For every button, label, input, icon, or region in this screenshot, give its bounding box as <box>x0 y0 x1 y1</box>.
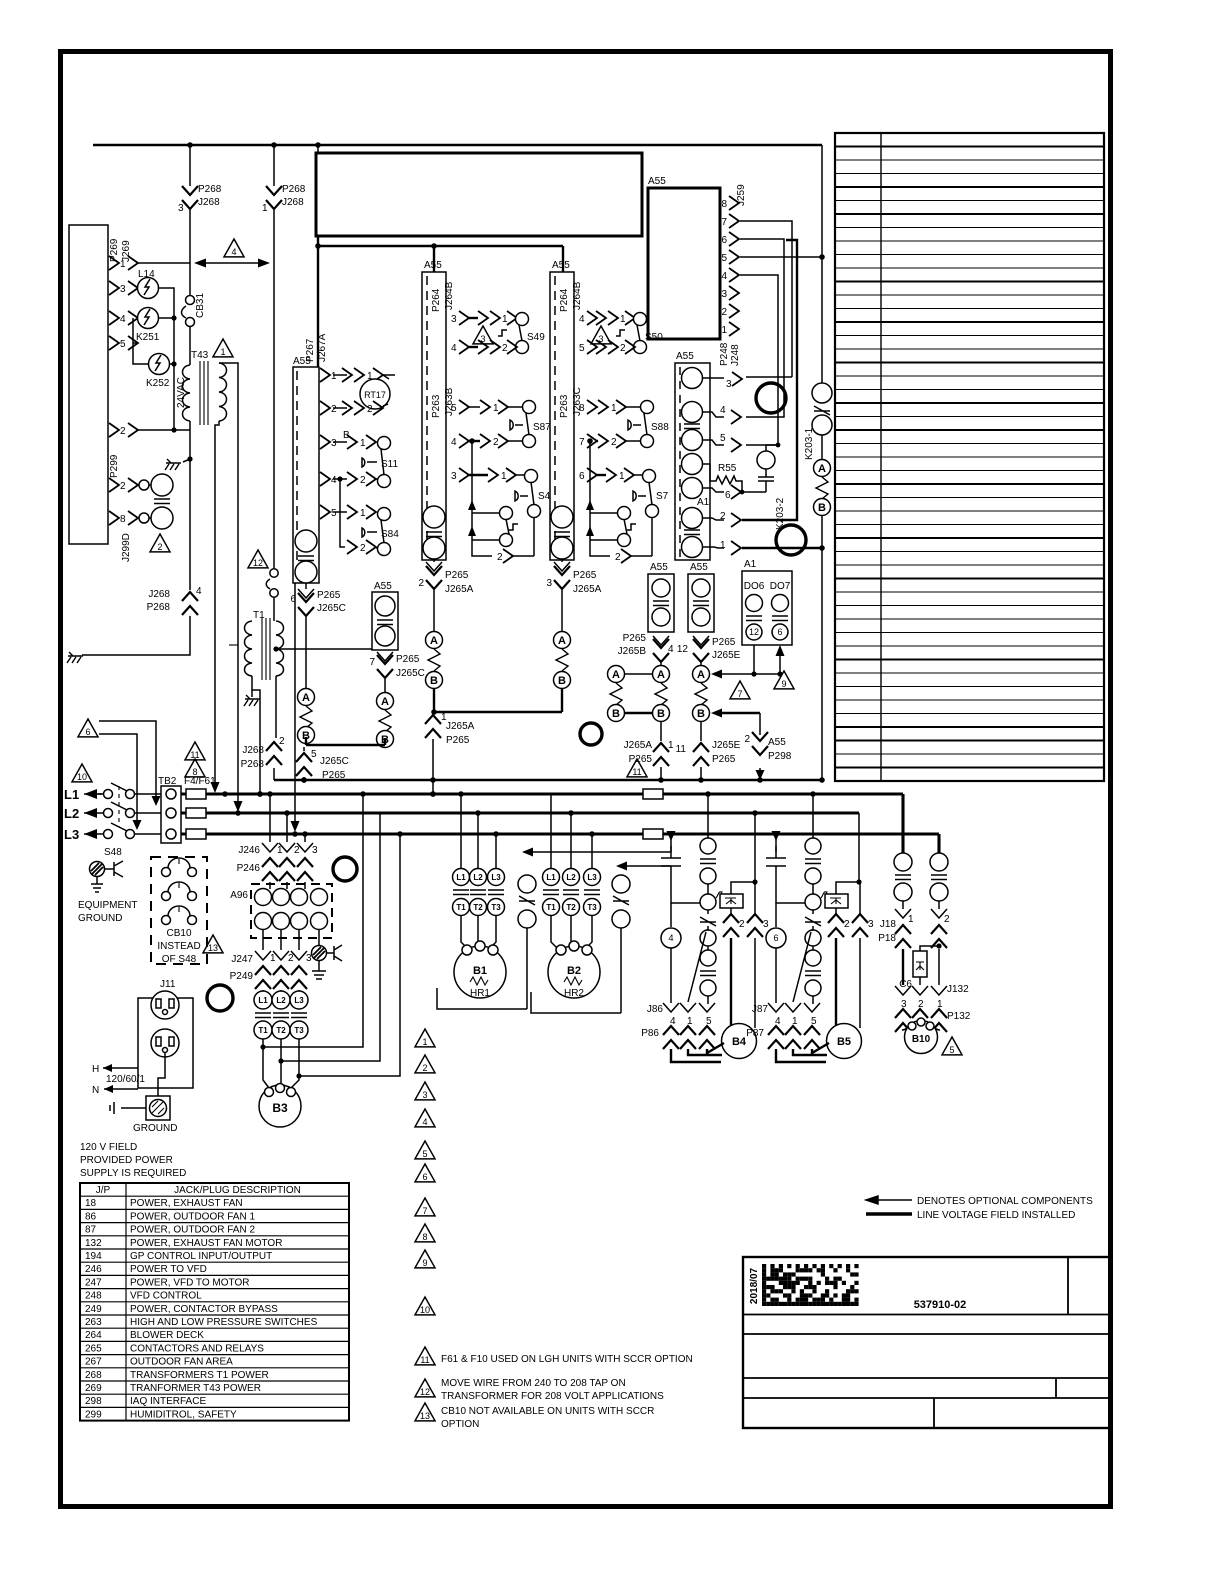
svg-text:12: 12 <box>253 558 263 568</box>
svg-text:2: 2 <box>288 953 294 964</box>
damper latch contacts <box>586 441 636 556</box>
svg-text:P268: P268 <box>198 184 222 195</box>
contactor contact chain (B5) <box>805 838 831 1004</box>
board A55 connector P267/J267A <box>293 356 319 583</box>
wire link to switch boards <box>318 246 563 272</box>
svg-text:9: 9 <box>781 679 786 689</box>
electric heat B1/HR1 <box>454 941 506 999</box>
note flag 2 <box>415 1055 435 1073</box>
svg-text:J18: J18 <box>880 919 897 930</box>
svg-text:TRANSFORMER FOR 208 VOLT APPLI: TRANSFORMER FOR 208 VOLT APPLICATIONS <box>441 1391 664 1402</box>
fuse F10 <box>643 829 663 839</box>
switch S84 <box>362 508 399 556</box>
svg-text:1: 1 <box>720 540 726 551</box>
svg-text:18: 18 <box>85 1198 97 1209</box>
svg-text:L1: L1 <box>64 787 79 802</box>
capacitor between <box>154 499 170 504</box>
indicator L14 <box>137 269 159 299</box>
transformer T43 <box>183 350 227 425</box>
svg-text:CB31: CB31 <box>195 293 206 318</box>
node A (J265C) <box>298 689 315 706</box>
blower motor B3 <box>259 1084 301 1128</box>
wire L14/K251/K252 right side to pin2 node <box>138 288 190 430</box>
drops from buses to J246 <box>270 794 305 842</box>
svg-text:POWER TO VFD: POWER TO VFD <box>130 1264 207 1275</box>
tap to pin1 <box>811 929 813 931</box>
svg-text:S50: S50 <box>645 332 663 343</box>
svg-text:RT17: RT17 <box>364 390 386 400</box>
svg-text:5: 5 <box>422 1149 427 1159</box>
svg-text:13: 13 <box>420 1411 430 1421</box>
svg-text:J268: J268 <box>242 745 264 756</box>
svg-text:P265: P265 <box>712 754 736 765</box>
svg-text:J265A: J265A <box>446 721 475 732</box>
wire: 24V common bus <box>274 779 822 781</box>
svg-text:A55: A55 <box>374 581 392 592</box>
switch S49 <box>498 313 545 354</box>
svg-text:B2: B2 <box>567 965 581 977</box>
svg-text:4: 4 <box>720 405 726 416</box>
svg-text:A55: A55 <box>768 737 786 748</box>
S48 linkage <box>104 786 122 858</box>
svg-text:2: 2 <box>360 475 366 486</box>
svg-text:R55: R55 <box>718 463 737 474</box>
wire to equipment ground <box>67 616 190 663</box>
svg-text:T2: T2 <box>473 903 483 912</box>
wire: top 24V bus <box>93 144 822 146</box>
connector J268/P268 pin2 <box>241 736 285 770</box>
wire to A <box>821 435 823 460</box>
svg-text:5: 5 <box>949 1045 954 1055</box>
connector J268/P268 pin4 <box>147 586 202 615</box>
twisted pair <box>379 710 391 732</box>
svg-text:J265A: J265A <box>573 584 602 595</box>
svg-text:4: 4 <box>231 247 236 257</box>
svg-text:P268: P268 <box>241 759 265 770</box>
A55 J267A pin1 / sensor RT17 <box>320 368 395 382</box>
svg-text:INSTEAD: INSTEAD <box>157 941 200 952</box>
wire B to low bus <box>821 515 823 780</box>
svg-text:4: 4 <box>451 343 457 354</box>
svg-text:J265A: J265A <box>624 740 653 751</box>
svg-text:P269: P269 <box>109 238 120 262</box>
svg-text:5: 5 <box>720 433 726 444</box>
connector J132 <box>895 984 969 1010</box>
note flag 10 <box>415 1297 435 1315</box>
svg-text:6: 6 <box>85 727 90 737</box>
svg-text:T2: T2 <box>276 1026 286 1035</box>
fused tap circle 6 <box>766 903 786 1003</box>
node B (K203) <box>814 499 831 516</box>
switch S11 <box>362 437 398 488</box>
wires into motor <box>671 1043 724 1062</box>
relay coil box <box>825 813 862 908</box>
node A (J265E) with feed from A1 <box>693 645 757 683</box>
svg-text:6: 6 <box>725 490 731 501</box>
2D barcode <box>762 1264 859 1306</box>
svg-text:P263: P263 <box>559 394 570 418</box>
svg-text:3: 3 <box>726 379 732 390</box>
jack/plug description table <box>80 1183 349 1421</box>
svg-text:3: 3 <box>901 999 907 1010</box>
svg-text:J264B: J264B <box>572 281 583 310</box>
P269 pin 5 <box>109 336 138 350</box>
J259 pin 8 <box>721 196 739 210</box>
wire T43 secondary low <box>189 421 191 590</box>
svg-text:TRANSFORMERS T1 POWER: TRANSFORMERS T1 POWER <box>130 1370 269 1381</box>
svg-text:269: 269 <box>85 1383 102 1394</box>
disconnect S48 pole L3 <box>104 823 162 839</box>
svg-text:11: 11 <box>676 744 687 755</box>
J259 pin 1 <box>721 322 739 336</box>
contactor poles A55 <box>682 368 710 558</box>
bypass contactor poles (VFD output) <box>254 990 308 1039</box>
svg-text:J246: J246 <box>238 845 260 856</box>
svg-text:J265C: J265C <box>320 756 349 767</box>
svg-text:6: 6 <box>773 933 778 943</box>
contactor board A55 with P248/J248 <box>675 351 710 560</box>
svg-text:1: 1 <box>619 471 625 482</box>
svg-text:1: 1 <box>220 347 225 357</box>
svg-text:P265: P265 <box>573 570 597 581</box>
wire joining B nodes <box>306 737 385 745</box>
svg-text:A55: A55 <box>424 260 442 271</box>
svg-text:P86: P86 <box>641 1028 659 1039</box>
connector P269/J269 box <box>69 225 108 544</box>
latch output pin 2 <box>497 518 534 563</box>
P248 pin2 <box>702 240 797 527</box>
wire ring marker 2 <box>333 857 357 881</box>
svg-text:268: 268 <box>85 1370 102 1381</box>
svg-text:2: 2 <box>844 919 850 930</box>
heater contactor K1 poles <box>453 794 505 916</box>
wire x190 down <box>189 210 191 296</box>
svg-text:S87: S87 <box>533 422 551 433</box>
svg-text:IAQ INTERFACE: IAQ INTERFACE <box>130 1396 206 1407</box>
note flag 4 and option range arrows <box>224 239 244 257</box>
motor B4 <box>722 1024 757 1059</box>
P269 pin 3 <box>109 281 138 295</box>
legend: line voltage field installed <box>866 1210 1075 1221</box>
bus L2 wire <box>181 811 859 814</box>
drop to low voltage bus with J265C pin5 <box>296 747 349 783</box>
limit switch upper <box>151 474 173 496</box>
motor B5 <box>827 1024 862 1059</box>
svg-text:J265A: J265A <box>445 584 474 595</box>
wire ring marker lower <box>776 525 806 555</box>
svg-text:2: 2 <box>360 543 366 554</box>
run capacitor branch <box>661 831 700 903</box>
wires into motor <box>776 1043 829 1062</box>
svg-text:4: 4 <box>196 586 202 597</box>
svg-text:CONTACTORS AND RELAYS: CONTACTORS AND RELAYS <box>130 1343 264 1354</box>
twisted pair <box>428 649 440 671</box>
svg-text:P246: P246 <box>237 863 261 874</box>
fuse F4 <box>186 789 206 799</box>
terminal block TB2 <box>158 776 181 843</box>
svg-text:3: 3 <box>451 471 457 482</box>
node B (J265E) with feed from P298 <box>693 705 761 722</box>
svg-text:A55: A55 <box>552 260 570 271</box>
svg-text:3: 3 <box>312 845 318 856</box>
svg-text:1: 1 <box>422 1037 427 1047</box>
svg-text:2: 2 <box>721 307 727 318</box>
svg-text:L14: L14 <box>138 269 155 280</box>
svg-text:1: 1 <box>270 953 276 964</box>
svg-text:3: 3 <box>546 578 552 589</box>
svg-text:S48: S48 <box>104 847 122 858</box>
J259 pin 7 <box>721 214 739 228</box>
wire x274 down to T1 <box>273 210 275 568</box>
twisted pair <box>695 683 707 705</box>
svg-text:P298: P298 <box>768 751 792 762</box>
power bus L2 <box>64 806 103 821</box>
svg-text:10: 10 <box>420 1305 430 1315</box>
wire to node A <box>561 590 563 631</box>
wire ring marker <box>207 985 233 1011</box>
svg-text:J248: J248 <box>730 344 741 366</box>
svg-text:194: 194 <box>85 1251 102 1262</box>
T43 primary wires to buses <box>211 363 243 812</box>
note flag 4 <box>415 1109 435 1127</box>
thermistor RT17 <box>333 375 390 409</box>
component table (empty grid) <box>835 133 1104 781</box>
120V field note <box>80 1142 186 1179</box>
damper latch contacts <box>468 441 518 556</box>
svg-text:P265: P265 <box>623 633 647 644</box>
svg-text:P268: P268 <box>147 602 171 613</box>
svg-text:3: 3 <box>178 203 184 214</box>
fuse F6 <box>186 829 206 839</box>
bus L3 wire <box>181 832 939 835</box>
A96 ground <box>312 930 343 979</box>
svg-text:SUPPLY IS REQUIRED: SUPPLY IS REQUIRED <box>80 1168 186 1179</box>
svg-text:7: 7 <box>721 217 727 228</box>
svg-text:1: 1 <box>668 740 674 751</box>
svg-text:POWER, VFD TO MOTOR: POWER, VFD TO MOTOR <box>130 1277 249 1288</box>
twisted pair <box>300 706 312 728</box>
node B <box>554 672 571 689</box>
svg-text:N: N <box>92 1085 99 1096</box>
svg-text:2: 2 <box>502 343 508 354</box>
svg-text:5: 5 <box>579 343 585 354</box>
board A55 aux contact box <box>372 581 398 650</box>
bus L1 wire <box>181 792 903 795</box>
svg-text:2: 2 <box>611 437 617 448</box>
svg-text:JACK/PLUG DESCRIPTION: JACK/PLUG DESCRIPTION <box>174 1185 301 1196</box>
svg-text:3: 3 <box>721 289 727 300</box>
exhaust fan contact column 2 <box>930 834 948 909</box>
svg-text:K251: K251 <box>136 332 160 343</box>
svg-text:264: 264 <box>85 1330 102 1341</box>
svg-text:P264: P264 <box>559 288 570 312</box>
svg-text:5: 5 <box>331 508 337 519</box>
connector P86 <box>641 1026 715 1049</box>
svg-text:247: 247 <box>85 1277 102 1288</box>
heater return wires <box>437 988 621 1013</box>
exhaust fan contact column 1 <box>894 794 912 909</box>
svg-text:OPTION: OPTION <box>441 1419 479 1430</box>
svg-text:10: 10 <box>77 772 87 782</box>
power bus L1 <box>64 787 103 802</box>
connector P265/J265C pin7 <box>369 652 424 679</box>
svg-text:S11: S11 <box>381 459 398 470</box>
relay K203-2 <box>757 445 778 492</box>
note flag 3 <box>415 1082 435 1100</box>
svg-text:L2: L2 <box>276 996 286 1005</box>
node B <box>426 672 443 689</box>
svg-text:B3: B3 <box>272 1101 288 1115</box>
svg-text:4: 4 <box>721 271 727 282</box>
note flag 8 <box>415 1224 435 1242</box>
heater contactor K2 poles <box>543 794 601 916</box>
connector P265/J265C pin6 <box>290 583 345 616</box>
resistor R55 <box>702 463 742 492</box>
svg-text:4: 4 <box>668 933 673 943</box>
svg-text:P268: P268 <box>282 184 306 195</box>
board A55 switch inputs (J264B/J263B) <box>422 260 446 560</box>
switch S7 <box>633 470 669 518</box>
connector P249 <box>230 966 307 989</box>
J263B pin 5 <box>451 400 522 414</box>
svg-text:2: 2 <box>497 552 503 563</box>
svg-text:P267: P267 <box>305 338 316 362</box>
svg-text:24VAC: 24VAC <box>176 377 187 408</box>
connector P246 <box>237 858 313 881</box>
svg-text:B1: B1 <box>473 965 487 977</box>
svg-text:4: 4 <box>668 644 674 655</box>
svg-text:3: 3 <box>868 919 874 930</box>
svg-text:P299: P299 <box>109 454 120 478</box>
disconnect S48 pole L2 <box>104 802 162 818</box>
connector J265E pin11 to bus <box>676 721 741 780</box>
relay K251 <box>136 308 160 344</box>
twisted pairs <box>610 683 622 705</box>
relay coil box <box>720 813 758 908</box>
svg-text:GP CONTROL INPUT/OUTPUT: GP CONTROL INPUT/OUTPUT <box>130 1251 272 1262</box>
wire board to L3 <box>291 583 300 832</box>
P248 pin1 <box>702 540 825 555</box>
equipment ground <box>78 861 137 924</box>
P269 pin 4 <box>109 311 138 325</box>
svg-text:1: 1 <box>501 471 507 482</box>
board lower contact with capacitor <box>423 506 445 559</box>
svg-text:A1: A1 <box>744 559 757 570</box>
svg-text:7: 7 <box>737 689 742 699</box>
svg-text:L3: L3 <box>491 873 501 882</box>
svg-text:P87: P87 <box>746 1028 764 1039</box>
J263C pin 7 <box>579 434 640 448</box>
svg-text:2: 2 <box>744 734 750 745</box>
svg-text:S84: S84 <box>381 529 399 540</box>
limit switch lower <box>151 507 173 529</box>
svg-text:MOVE WIRE FROM 240 TO 208 TAP: MOVE WIRE FROM 240 TO 208 TAP ON <box>441 1378 626 1389</box>
svg-text:J265E: J265E <box>712 650 741 661</box>
J259 pin 6 <box>721 232 739 246</box>
svg-text:537910-02: 537910-02 <box>914 1299 967 1311</box>
svg-text:2: 2 <box>120 426 126 437</box>
VFD A96 <box>230 884 332 938</box>
wires into B3 <box>263 1047 299 1088</box>
svg-text:J132: J132 <box>947 984 969 995</box>
P248 pin4 <box>702 405 741 424</box>
svg-text:4: 4 <box>331 475 337 486</box>
svg-text:J265C: J265C <box>396 668 425 679</box>
svg-text:LINE VOLTAGE FIELD INSTALLED: LINE VOLTAGE FIELD INSTALLED <box>917 1210 1075 1221</box>
P248 pin3 <box>702 372 742 390</box>
fan feed from L1 x=708 <box>707 794 709 838</box>
svg-text:7: 7 <box>369 657 375 668</box>
svg-text:L2: L2 <box>473 873 483 882</box>
legend: optional components arrow <box>866 1196 1093 1207</box>
connector J246 <box>238 843 318 856</box>
svg-text:OF S48: OF S48 <box>162 954 197 965</box>
J263C pin 6 <box>579 468 644 482</box>
wire bus to box <box>317 145 319 153</box>
svg-text:5: 5 <box>721 253 727 264</box>
P269 pin 1 <box>109 256 138 270</box>
connector P265/J265A pin 3 <box>546 559 601 595</box>
svg-text:P249: P249 <box>230 971 254 982</box>
svg-text:A55: A55 <box>648 176 666 187</box>
wire pin4/K251 and pin5 link <box>133 318 149 364</box>
svg-text:1: 1 <box>611 403 617 414</box>
svg-text:7: 7 <box>579 437 585 448</box>
svg-text:2: 2 <box>918 999 924 1010</box>
switch S4 <box>515 470 551 518</box>
connector P268/J268 pin3 <box>178 145 222 214</box>
contact 3 arrows <box>747 882 769 1028</box>
svg-text:A1: A1 <box>697 497 710 508</box>
svg-text:BLOWER DECK: BLOWER DECK <box>130 1330 204 1341</box>
svg-text:249: 249 <box>85 1304 102 1315</box>
breaker CB10 option box <box>151 857 207 964</box>
svg-text:2018/07: 2018/07 <box>749 1267 760 1304</box>
svg-text:J87: J87 <box>752 1004 769 1015</box>
svg-text:2: 2 <box>944 914 950 925</box>
latch output pin 2 <box>615 518 652 563</box>
svg-text:J/P: J/P <box>96 1185 111 1196</box>
note 11 <box>415 1347 435 1365</box>
svg-text:J265E: J265E <box>712 740 741 751</box>
svg-text:1: 1 <box>620 314 626 325</box>
note flag 9 <box>415 1250 435 1268</box>
svg-text:L3: L3 <box>64 827 79 842</box>
svg-text:13: 13 <box>208 943 218 953</box>
svg-text:J268: J268 <box>282 197 304 208</box>
DO7 wire with up arrow <box>754 645 785 677</box>
svg-text:8: 8 <box>192 767 197 777</box>
svg-text:T1: T1 <box>253 610 265 621</box>
disconnect S48 pole L1 <box>104 783 162 799</box>
svg-text:J247: J247 <box>231 954 253 965</box>
svg-text:265: 265 <box>85 1343 102 1354</box>
node A (pin7) <box>377 693 394 710</box>
svg-text:L1: L1 <box>546 873 556 882</box>
svg-text:L2: L2 <box>566 873 576 882</box>
svg-text:P263: P263 <box>431 394 442 418</box>
connector P265/J265B pin4 <box>618 633 674 662</box>
capacitor C6 <box>899 943 941 990</box>
ground electrode <box>110 1052 177 1134</box>
connector P268/J268 pin1 <box>262 145 306 214</box>
svg-text:H: H <box>92 1064 99 1075</box>
svg-text:T43: T43 <box>191 350 209 361</box>
connector J18/P18 pin1 <box>878 909 914 985</box>
note flag 1 <box>415 1029 435 1047</box>
svg-text:6: 6 <box>777 627 782 637</box>
svg-text:T2: T2 <box>566 903 576 912</box>
